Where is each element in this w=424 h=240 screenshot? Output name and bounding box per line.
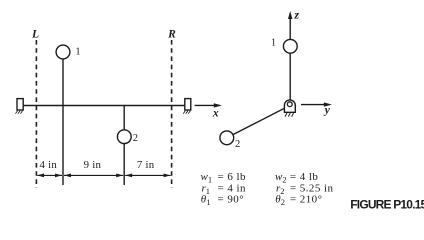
- mass 2 circle: [117, 130, 131, 144]
- pivot pin: [287, 102, 292, 107]
- svg-text:z: z: [293, 9, 299, 21]
- svg-text:4 in: 4 in: [40, 159, 58, 171]
- pivot hatch: [285, 113, 294, 117]
- shaft: [23, 105, 185, 107]
- svg-text:x: x: [212, 108, 219, 120]
- mass 1 circle (right figure): [283, 39, 297, 53]
- svg-text:L: L: [31, 29, 39, 41]
- mass 1 stem and extension line: [62, 59, 64, 185]
- bearing left: [16, 99, 24, 114]
- svg-text:7 in: 7 in: [137, 159, 155, 171]
- dimension arrow 7 in: [125, 174, 170, 178]
- link pivot to mass 2 (right figure): [227, 106, 290, 138]
- svg-text:y: y: [323, 105, 331, 117]
- svg-text:9 in: 9 in: [84, 159, 102, 171]
- dashed line L (left correction plane): [35, 40, 37, 188]
- svg-text:R: R: [167, 29, 176, 41]
- bearing right: [183, 99, 191, 114]
- dashed line R (right correction plane): [171, 40, 173, 188]
- mass 1 circle: [56, 45, 70, 59]
- dimension arrow 9 in: [64, 174, 123, 178]
- dimension arrow 4 in: [37, 174, 62, 178]
- svg-text:2: 2: [235, 139, 240, 150]
- y axis arrow: [301, 102, 332, 106]
- svg-text:1: 1: [271, 37, 276, 48]
- mass 2 circle (right figure): [220, 131, 234, 145]
- svg-text:FIGURE P10.15: FIGURE P10.15: [350, 198, 424, 212]
- x axis arrow: [195, 103, 222, 107]
- svg-text:2: 2: [133, 133, 138, 144]
- pivot support body: [284, 100, 295, 112]
- link pivot to mass 1 (right figure): [289, 53, 291, 103]
- mass 2 stem and extension line: [123, 106, 125, 186]
- svg-text:1: 1: [75, 47, 80, 58]
- z axis arrow (right figure): [288, 11, 292, 40]
